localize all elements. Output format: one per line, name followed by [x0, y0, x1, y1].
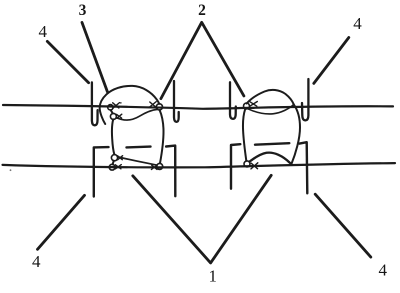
knot K1: [108, 105, 113, 110]
leader line for label 3: [82, 23, 108, 93]
svg-text:4: 4: [39, 22, 48, 41]
leader lines for label 2: [161, 22, 244, 98]
clamp bracket B1: [94, 147, 109, 196]
left graft knot link K1-K2: [111, 110, 113, 113]
knot tails X8: [251, 163, 258, 169]
knot tails X1: [113, 103, 120, 109]
knot K8: [244, 161, 250, 167]
leader line for label 4 top-right: [314, 38, 349, 84]
stay-suture hook T2: [174, 81, 179, 122]
left graft knot link K4-K5: [113, 161, 114, 165]
svg-text:4: 4: [353, 14, 362, 33]
knot tails X6: [151, 165, 157, 170]
svg-text:3: 3: [79, 2, 87, 19]
left graft front top curve: [117, 109, 158, 120]
stay-suture hook T4: [302, 79, 308, 120]
knot tails X3: [150, 102, 157, 108]
knot K3: [156, 104, 162, 110]
right graft left side curve: [243, 109, 246, 161]
left graft right side curve: [160, 110, 164, 163]
left graft left side curve: [112, 119, 114, 154]
stay-suture hook T3: [230, 82, 236, 119]
knot K7: [244, 103, 250, 109]
stay-suture hook T1: [92, 82, 98, 125]
leader line for label 4 bottom-left: [38, 195, 85, 249]
clamp bar dash right: [255, 143, 289, 145]
right graft right side curve: [292, 105, 301, 164]
knot K2: [110, 113, 116, 119]
knot tails X4: [118, 156, 123, 160]
left graft dome and curl: [100, 86, 160, 124]
knot K6: [157, 163, 163, 169]
wire top vessel line: [3, 105, 393, 109]
wire bottom vessel line: [3, 163, 396, 167]
leader line for label 4 top-left: [47, 41, 88, 82]
knot tails X5: [115, 165, 121, 169]
clamp bracket B4: [300, 142, 308, 193]
right graft front bottom curve: [250, 153, 291, 164]
clamp bar dash left: [127, 145, 151, 148]
svg-text:4: 4: [32, 252, 41, 271]
speck near left edge of bottom line: [10, 169, 12, 171]
knot K4: [111, 155, 117, 161]
clamp bracket B2: [166, 146, 175, 197]
knot tails X2: [117, 114, 122, 118]
knot K5: [109, 164, 115, 170]
leader lines for label 1: [133, 175, 271, 263]
svg-text:2: 2: [198, 2, 206, 19]
speck near knot K1 tails: [120, 102, 122, 104]
right graft dome: [247, 90, 294, 104]
clamp bracket B3: [231, 144, 240, 189]
knot tails X7: [250, 102, 257, 107]
right graft front top curve: [248, 105, 294, 114]
svg-text:1: 1: [209, 266, 218, 285]
left graft front bottom suture: [118, 157, 156, 165]
svg-text:4: 4: [378, 261, 387, 280]
leader line for label 4 bottom-right: [315, 194, 371, 257]
